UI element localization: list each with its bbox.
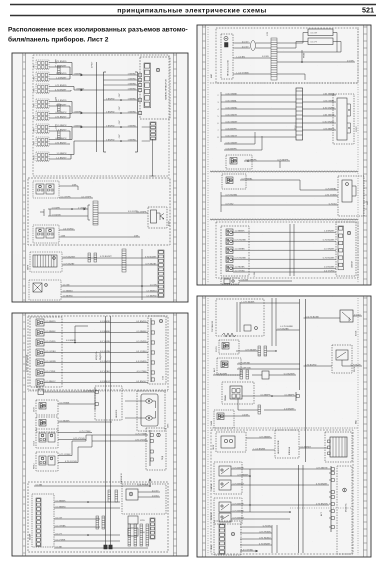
wire B1-1 <box>44 322 148 324</box>
connector C3 enclosure <box>222 174 246 189</box>
wire C1 mid <box>235 57 271 59</box>
connector B1-3 <box>36 339 44 346</box>
right strip B1 enclosure <box>148 316 166 384</box>
connector D3 enclosure <box>217 358 241 375</box>
panel C frame <box>197 25 371 285</box>
connector K1a <box>36 184 44 194</box>
right strip B4 <box>150 518 155 539</box>
panel D right margin ladder <box>364 296 368 557</box>
merge jogs group 5 <box>68 154 74 156</box>
lighter enclosure <box>214 498 242 524</box>
connector C4-3 <box>226 247 233 254</box>
panel C right dashed margin <box>357 27 359 283</box>
harness enclosure B1 <box>30 317 62 387</box>
inline bars B4 group3 <box>128 524 131 546</box>
wire C4-5 <box>233 267 336 269</box>
wire D4 <box>242 395 272 397</box>
connector VOLS b <box>48 433 55 442</box>
module D7 enclosure <box>325 432 352 462</box>
wire D5 <box>224 415 250 417</box>
right strip B3 cells <box>150 434 153 437</box>
lighter switch 2 <box>219 513 231 522</box>
panel B top section enclosure <box>28 316 168 390</box>
head unit D inner wires <box>236 302 238 332</box>
page header rule bottom <box>10 15 376 17</box>
inline bar D4 lower <box>258 405 261 414</box>
wire pair from X8/5 <box>49 101 68 103</box>
module C3 connector <box>342 180 352 202</box>
wire B1-2 <box>44 332 148 334</box>
wires C1 from head unit <box>235 42 250 44</box>
wire C2-3 <box>221 108 224 110</box>
connector VOLS enclosure <box>36 429 58 448</box>
relay box D top <box>340 310 353 322</box>
module A1 enclosure <box>140 57 170 119</box>
panel D left margin ladder <box>203 296 206 557</box>
wire C3 top <box>240 179 300 181</box>
merge jogs group 1 <box>68 62 72 64</box>
connector K2 enclosure <box>33 225 59 243</box>
right module B2 body <box>141 394 158 426</box>
right bracket strip D <box>330 466 332 532</box>
bracket left A <box>103 72 105 152</box>
wire B1-3 <box>44 342 148 344</box>
connector K2a <box>36 228 44 238</box>
junction dots B4 <box>87 501 89 503</box>
panel D frame <box>197 296 371 557</box>
wire D4 top right <box>269 374 296 376</box>
bottom A vertical riser <box>141 249 143 300</box>
connector D2 <box>222 343 229 350</box>
wire K1 out <box>59 185 78 187</box>
bus wire A-bot 5 <box>61 296 158 298</box>
connector ALT enclosure <box>36 417 58 432</box>
connector X8/10 <box>36 152 49 162</box>
section divider C1 <box>210 82 358 84</box>
connector X8/8 <box>36 124 49 134</box>
lighter wires <box>231 504 329 506</box>
mid enclosure D6 <box>275 430 299 458</box>
section divider D <box>210 427 358 429</box>
merge jogs group 2 <box>68 86 74 88</box>
left pin ticks C3 <box>220 192 222 212</box>
wires C2 low <box>224 143 255 145</box>
panel A left margin ladder <box>23 53 26 302</box>
head unit screw symbol <box>224 37 228 41</box>
right strip B3 bracket <box>149 430 151 466</box>
socket symbol B2-2 <box>146 416 152 420</box>
right module B2 enclosure <box>137 391 165 431</box>
wire C5 <box>239 280 292 282</box>
wire pair from X8/4 <box>49 86 68 88</box>
bottom strip D10 screw <box>231 532 234 535</box>
wires to X31 <box>142 126 150 128</box>
wire OBOG <box>246 437 272 439</box>
wire C4-3 <box>233 249 336 251</box>
module C2 connector <box>337 98 347 140</box>
connector G1 enclosure <box>30 252 62 272</box>
connector hatch block G1 <box>33 255 57 267</box>
panel B central bus wire 1 <box>105 316 107 545</box>
head unit body <box>225 43 229 48</box>
left bracket A-mid <box>49 209 51 216</box>
panel C right margin ladder <box>364 25 368 285</box>
lighter switch 1 <box>219 502 231 512</box>
connector X8/4 <box>36 84 49 94</box>
wire C2-1 <box>221 94 224 96</box>
right vertical wire pair D <box>298 465 300 553</box>
main vertical bus D2 <box>305 299 307 462</box>
connector K1b <box>46 184 54 194</box>
connector G2 enclosure <box>29 280 61 300</box>
connector C4-5 <box>226 265 233 272</box>
panel D left dashed margin <box>207 298 209 555</box>
connector C2b <box>230 158 237 165</box>
connector C3 <box>226 177 233 184</box>
module C4 pins <box>338 226 344 270</box>
bracket D4 <box>295 392 297 401</box>
right module D enclosure <box>337 466 352 554</box>
module C4 enclosure <box>336 222 356 276</box>
wire C2b <box>244 160 290 162</box>
panel B central bus wire 2 <box>110 316 112 545</box>
wires D3 <box>237 363 300 365</box>
wire C4-2 <box>233 240 336 242</box>
panel B right margin ladder <box>174 313 177 556</box>
connector PEN b <box>48 456 55 465</box>
wire C2-4 <box>221 115 224 117</box>
wire pair from X8/2 <box>49 74 68 76</box>
top wire B4 <box>34 485 150 487</box>
panel D right dashed margin <box>357 298 359 555</box>
wire D10-3 <box>240 538 272 540</box>
connector B1-6 <box>36 369 44 376</box>
bus wire A-bot 4 <box>61 291 158 293</box>
wire pair from X8/9 <box>49 139 68 141</box>
wire C4 ground <box>233 271 336 273</box>
splice J1069 <box>58 131 61 139</box>
clock switch 1 <box>219 466 231 476</box>
module D7 cells <box>328 440 331 443</box>
bus wire A-bot 1 <box>62 257 158 259</box>
wire D10-1 <box>240 526 272 528</box>
wire K2 lower <box>59 236 140 238</box>
tall inline bar A-bot <box>122 249 126 272</box>
wire C2-5 <box>221 122 224 124</box>
panel B left margin ladder <box>23 313 26 556</box>
junction rows plain <box>104 74 138 76</box>
right module B4 small boxes <box>128 516 138 524</box>
connector X8/2 <box>36 72 49 82</box>
wire ALT <box>58 421 112 423</box>
relay D wires <box>304 365 333 367</box>
connector K1 enclosure <box>33 181 59 198</box>
riser C2b <box>279 161 281 168</box>
wire to module A-mid <box>98 212 148 214</box>
bus feed wires <box>72 74 97 76</box>
module C3 enclosure <box>338 176 364 216</box>
bottom connector C5 <box>224 279 230 284</box>
oval inline connector C1 <box>251 41 256 51</box>
fuse box F2 <box>308 38 333 45</box>
junction arrows into bus <box>81 74 83 77</box>
section enclosure A-mid <box>28 178 170 245</box>
wire C1 long <box>277 61 355 63</box>
panel C left dashed margin <box>207 27 209 283</box>
bracket cells B mid <box>94 388 96 410</box>
clock enclosure <box>214 462 242 494</box>
wire D top2 <box>304 317 341 319</box>
connector C4-1 <box>226 229 233 236</box>
right strip B3 enclosure <box>146 428 166 470</box>
right pinstrip A-bot <box>158 250 164 297</box>
socket symbol B2-1 <box>146 399 152 403</box>
right module A-mid enclosure <box>148 207 167 228</box>
connector X8/5 <box>36 99 49 109</box>
drop from headlamp sw <box>237 399 239 410</box>
connector strip X31 <box>150 122 156 140</box>
divider dotted D bottom <box>290 507 352 509</box>
head unit connector enclosure <box>221 34 233 79</box>
mid enclosure B2 <box>95 386 122 420</box>
tall splice bar A-mid <box>93 201 98 225</box>
connector MOH <box>39 403 46 410</box>
wire C2-2 <box>221 101 224 103</box>
fuse box F1 <box>308 29 333 36</box>
right strip B3 screw <box>157 433 160 436</box>
panel C left margin ladder <box>203 25 206 285</box>
module D7 box <box>330 437 347 457</box>
section divider C3 <box>210 219 358 220</box>
wires into B2 <box>125 400 146 402</box>
riser at junction C1 <box>301 50 303 62</box>
bus wire A-bot 2 <box>62 264 158 266</box>
wire pair from X8/8 <box>49 126 68 128</box>
connector OBOG enclosure <box>216 432 246 452</box>
wire C1 low <box>235 73 271 75</box>
svg-text:Расположение всех изолированны: Расположение всех изолированных разъемов… <box>8 27 188 34</box>
extra lighter wire <box>231 518 290 520</box>
inline bars B4 group1 <box>108 490 111 502</box>
wire pair from X8/1 <box>49 62 68 64</box>
connector X8/9 <box>36 137 49 147</box>
bus wire A-bot 3 <box>61 285 158 287</box>
vertical riser C pair <box>289 224 291 276</box>
right module A-mid connector <box>151 210 157 223</box>
stub riser B <box>74 326 76 343</box>
connector C4-2 <box>226 238 233 245</box>
wire left of D6 <box>252 449 275 451</box>
connector X8/7 <box>36 111 49 121</box>
battery connector strip <box>32 494 54 547</box>
wire C4-1 <box>233 231 336 233</box>
wire D10-4 <box>240 544 272 546</box>
inline bars D4 top <box>240 370 243 379</box>
right bracket A-mid <box>87 205 89 220</box>
small box D4 <box>262 371 269 379</box>
wire pair from X8/7 <box>49 113 68 115</box>
panel B frame <box>12 313 188 556</box>
wires C1 right risers <box>277 42 303 44</box>
wire MOH <box>58 403 95 405</box>
connector C4-4 <box>226 256 233 263</box>
wire C2-6 <box>221 129 224 131</box>
connector ALT <box>39 420 46 427</box>
bottom strip D10 enclosure <box>214 521 241 555</box>
connector BLCK <box>38 389 44 395</box>
headlamp sw inner <box>230 386 242 399</box>
right bracket pins D <box>329 468 331 470</box>
wire D2 <box>236 350 258 352</box>
right module A-mid transistor symbol <box>157 212 161 214</box>
connector B1-1 <box>36 319 44 326</box>
row above headlamp switch <box>213 374 240 376</box>
wire into D7 <box>299 447 328 449</box>
right strip B1 screw <box>159 319 162 322</box>
wire D2 right <box>267 350 276 352</box>
connector C2b enclosure <box>226 155 252 169</box>
relay D box <box>336 350 348 360</box>
connector K2b <box>46 228 54 238</box>
wire D4 lower <box>238 409 258 411</box>
wire D4 right <box>272 395 296 397</box>
inline bars B4 group2 <box>96 516 99 529</box>
section D bottom enclosure <box>211 430 353 554</box>
connector MOH enclosure <box>36 400 58 415</box>
module C4 screw <box>347 231 350 234</box>
splice J1068 <box>58 104 61 112</box>
relay D enclosure <box>332 345 352 373</box>
riser D10 <box>271 525 273 553</box>
vertical bus line A <box>96 62 98 152</box>
module A1 connector <box>144 63 151 108</box>
tall connector bar C1 <box>271 38 277 80</box>
wire B1-6 <box>44 372 148 374</box>
right module D screw <box>343 488 347 492</box>
connector bank C4 enclosure <box>221 226 249 276</box>
wire K1 lower <box>59 197 93 199</box>
wire C2-7 <box>221 136 224 138</box>
svg-text:521: 521 <box>362 6 374 15</box>
wire BLCK <box>44 391 96 393</box>
wire C3 low <box>221 204 224 206</box>
connector X8/1 <box>36 60 49 70</box>
bus bar J523 <box>296 88 303 140</box>
wire K2 upper <box>59 229 75 231</box>
wires C2 right <box>303 94 337 96</box>
connector D5 <box>217 413 224 420</box>
junction dot B mid <box>74 342 76 344</box>
junction rows with splices <box>104 99 138 101</box>
wire C4-4 <box>233 258 336 260</box>
wire C1 bottom <box>277 73 305 75</box>
head unit D connectors <box>244 325 251 331</box>
bottom strip D10 pins <box>219 524 225 554</box>
connector VOLS a <box>39 433 46 442</box>
head unit D resistor squiggle <box>222 333 236 337</box>
central pair end caps <box>104 545 107 549</box>
loop wire pair A-mid <box>50 208 88 210</box>
wire pair from X8/10 <box>49 154 68 156</box>
right module B4 wires <box>138 491 160 493</box>
section C1 enclosure <box>216 28 358 83</box>
page header rule top <box>10 4 376 6</box>
wires to strip B3 <box>86 434 148 436</box>
connector PEN a <box>39 456 46 465</box>
connector B1-7 <box>36 379 44 386</box>
bracket feed stubs <box>97 74 104 76</box>
wires B4 bus <box>54 501 120 503</box>
clock wires <box>231 468 329 470</box>
section divider B <box>28 390 168 392</box>
wire D10-2 <box>240 532 272 534</box>
connector B1-2 <box>36 329 44 336</box>
panel A frame <box>12 53 188 302</box>
section C4 enclosure <box>216 222 358 278</box>
connector OBOG <box>221 436 235 448</box>
wire D relay right <box>353 315 362 317</box>
right module B4 connector <box>126 489 138 500</box>
bottom enclosure B4 <box>28 482 168 552</box>
connector PEN enclosure <box>36 452 58 471</box>
bracket right cells <box>139 73 142 76</box>
connector B1-4 <box>36 349 44 356</box>
link to relay box small <box>252 374 262 376</box>
wire D4 lower right <box>264 409 296 411</box>
module C2 internal links <box>347 103 351 105</box>
panel A right margin ladder <box>174 53 177 302</box>
bracket right A <box>137 72 139 152</box>
wire B1-4 <box>44 352 148 354</box>
splice J1067 <box>58 66 61 74</box>
module C2 enclosure <box>333 94 354 144</box>
module A1 screw <box>156 68 159 71</box>
vertical pair D left <box>271 298 273 346</box>
right strip B1 cells <box>151 321 154 324</box>
wire B1-5 <box>44 362 148 364</box>
connector D2 enclosure <box>219 340 239 354</box>
left pin ticks C2 <box>220 92 222 142</box>
main vertical bus D1 <box>299 299 301 390</box>
wire from vertical pair D <box>276 329 300 331</box>
wire B1-7 <box>44 382 148 384</box>
head unit pin stubs <box>233 42 235 44</box>
inline bars D2 <box>258 346 261 356</box>
wire D top <box>240 302 300 304</box>
headlamp sw enclosure <box>222 382 254 404</box>
head unit D enclosure <box>216 299 264 336</box>
clock switch 2 <box>219 480 231 490</box>
connector D3 <box>221 361 228 368</box>
svg-text:биля/панель приборов. Лист 2: биля/панель приборов. Лист 2 <box>8 36 109 44</box>
staircase jogs B <box>71 441 73 456</box>
connector hatch G2 <box>33 283 42 292</box>
wire D bottom <box>240 550 258 552</box>
inline connector pair A-bot <box>88 253 91 262</box>
merge jogs group 4 <box>68 126 72 128</box>
wires C1 to bar <box>256 42 272 44</box>
merge jogs group 3 <box>68 101 72 103</box>
connector B1-5 <box>36 359 44 366</box>
right strip B1 bracket <box>150 318 152 382</box>
wires PEN <box>58 455 72 457</box>
bottom wire B4 <box>54 547 148 549</box>
wire C3 mid <box>221 195 224 197</box>
wires VOLS <box>58 432 92 434</box>
bottom connector C5 enclosure <box>221 278 239 284</box>
svg-text:принципиальные электрические с: принципиальные электрические схемы <box>117 7 266 14</box>
drop wire from module <box>152 139 154 176</box>
